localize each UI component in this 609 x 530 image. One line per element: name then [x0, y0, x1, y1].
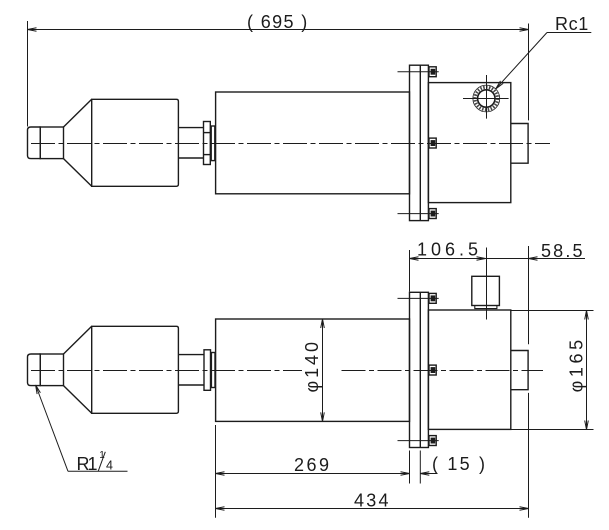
right body block (bottom view)	[428, 310, 510, 429]
bolt top (bottom view)	[429, 293, 436, 303]
mounting flange (bottom view)	[410, 292, 429, 447]
nozzle body (top view)	[40, 127, 63, 159]
Rc1 tapped hole: thread ring	[475, 87, 497, 109]
svg-text:φ165: φ165	[567, 340, 587, 393]
dimension 434: right extension line	[528, 246, 530, 344]
dimension 434: left extension line lower part	[215, 478, 217, 518]
dimension (695): left extension line	[27, 21, 29, 127]
svg-text:4: 4	[106, 459, 113, 473]
nut (top view)	[204, 122, 211, 165]
svg-text:R1: R1	[77, 454, 98, 474]
Rc1 tapped hole: outer circle	[473, 85, 500, 112]
svg-text:106.5: 106.5	[417, 240, 478, 260]
first body block (bottom view)	[92, 326, 179, 413]
Rc1 hole crosshair	[463, 75, 509, 119]
dimension phi165: dimension line with arrows	[585, 311, 589, 430]
svg-text:269: 269	[294, 455, 329, 475]
shaft (top view)	[178, 128, 203, 158]
fraction slash of R1 1/4	[98, 452, 105, 471]
dimension 106.5 and 58.5 dimension line	[410, 257, 586, 261]
nozzle cap (bottom view)	[28, 353, 41, 386]
svg-text:( 695 ): ( 695 )	[247, 12, 307, 32]
Rc1 tapped hole: inner circle	[478, 90, 495, 107]
Rc1 leader line	[496, 33, 592, 89]
dimension (15): extension lines	[410, 451, 421, 484]
barrel (top view)	[216, 92, 410, 194]
svg-text:434: 434	[354, 491, 389, 511]
leader R1 1/4	[36, 385, 128, 471]
svg-text:58.5: 58.5	[541, 241, 583, 261]
svg-text:Rc1: Rc1	[555, 14, 588, 34]
nozzle cap (top view)	[28, 126, 41, 159]
washer (top view)	[211, 126, 215, 161]
right protrusion (bottom view)	[511, 351, 528, 390]
dimension 106.5: left extension line	[409, 250, 411, 292]
bolt middle (bottom view)	[429, 365, 436, 375]
first body block (top view)	[92, 99, 179, 186]
svg-text:φ140: φ140	[302, 342, 322, 393]
bolt top (top view)	[429, 67, 436, 77]
bolt bottom (bottom view)	[429, 436, 436, 446]
svg-text:( 15 ): ( 15 )	[432, 454, 485, 474]
dimension 269: left extension line	[215, 425, 217, 478]
shaft (bottom view)	[178, 355, 204, 385]
cone (bottom view)	[64, 326, 92, 413]
dimension (695): right extension line	[528, 24, 530, 121]
nut (bottom view)	[204, 350, 211, 391]
dimension phi140: dimension line with arrows	[321, 319, 325, 421]
port block (bottom view)	[472, 276, 500, 308]
centerline (top view)	[31, 143, 550, 145]
washer (bottom view)	[211, 353, 215, 388]
bolt bottom centerline stub (bottom view)	[398, 440, 439, 442]
right protrusion (top view)	[511, 124, 528, 164]
right body block (top view)	[428, 83, 510, 203]
bolt bottom centerline stub	[398, 213, 439, 215]
dimension 269: dimension line with arrows	[216, 472, 410, 476]
bolt top centerline stub	[398, 71, 439, 73]
port centerline	[486, 248, 488, 320]
dimension (15): right outside arrow with tail	[420, 472, 437, 476]
nozzle body (bottom view)	[40, 354, 63, 386]
mounting flange (top view)	[410, 65, 429, 220]
dimension (695): dimension line with arrows	[28, 28, 529, 32]
cone (top view)	[64, 99, 92, 186]
dimension phi165: extension lines	[512, 311, 594, 430]
bolt middle (top view)	[429, 138, 436, 148]
bolt top centerline stub (bottom view)	[398, 297, 439, 299]
centerline (bottom view)	[31, 370, 302, 372]
bolt bottom (top view)	[429, 209, 436, 219]
barrel (bottom view)	[216, 319, 410, 421]
label R1 1/4	[77, 450, 114, 474]
dimension 434: dimension line with arrows	[216, 507, 529, 511]
